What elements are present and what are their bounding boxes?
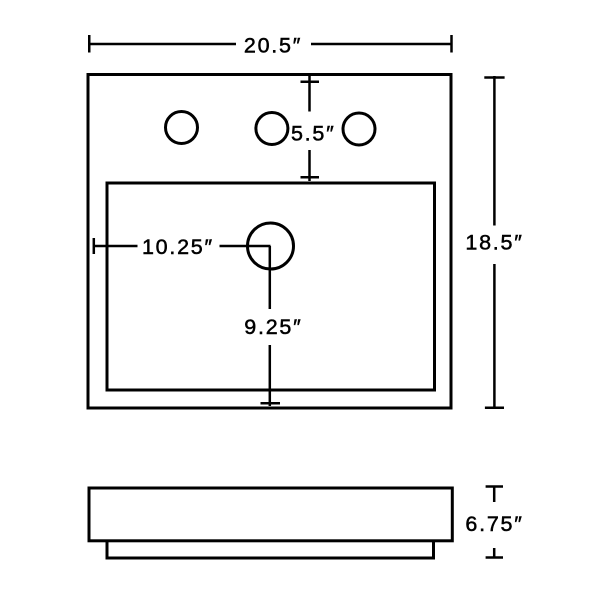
svg-text:9.25″: 9.25″ [244,315,302,339]
svg-text:5.5″: 5.5″ [291,122,336,146]
svg-text:20.5″: 20.5″ [244,34,302,58]
svg-text:10.25″: 10.25″ [142,235,214,259]
svg-text:18.5″: 18.5″ [465,231,523,255]
svg-text:6.75″: 6.75″ [465,512,523,536]
